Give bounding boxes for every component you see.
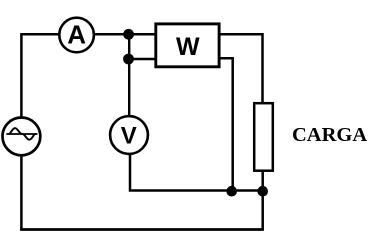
voltmeter V circle bbox=[110, 116, 148, 154]
wire left vertical through AC source bbox=[20, 33, 23, 231]
svg-text:W: W bbox=[176, 33, 200, 61]
wattmeter W box bbox=[156, 24, 219, 67]
wire bottom return bbox=[20, 228, 264, 231]
svg-text:V: V bbox=[121, 122, 137, 149]
wire voltmeter bottom down and right to node B bbox=[130, 155, 263, 191]
load resistor rectangle bbox=[254, 103, 273, 171]
node dot2 junction (wattmeter voltage coil net) bbox=[123, 54, 134, 65]
AC source V1 circle bbox=[3, 117, 41, 155]
wire top run from left corner through ammeter to wattmeter box bbox=[21, 33, 154, 36]
ammeter A1 circle bbox=[59, 18, 94, 53]
node A junction (bottom, from wattmeter) bbox=[226, 186, 237, 197]
wire wattmeter right top to load top bbox=[220, 34, 263, 103]
svg-text:CARGA: CARGA bbox=[292, 124, 367, 146]
AC source V1 sine symbol midline bbox=[6, 133, 37, 135]
wire load bottom lead to node B down to bottom return bbox=[261, 171, 264, 230]
node dot1 junction (ammeter/wattmeter/voltmeter net) bbox=[123, 29, 134, 40]
node B junction (bottom, load return) bbox=[257, 186, 268, 197]
wire dot2 to wattmeter box left bbox=[129, 58, 155, 61]
AC source V1 sine symbol wave bbox=[9, 128, 36, 140]
svg-text:A: A bbox=[67, 20, 86, 50]
wire vertical node dot1 to dot2 to voltmeter top bbox=[128, 34, 130, 116]
wire wattmeter right bottom down to node A bbox=[220, 58, 233, 191]
